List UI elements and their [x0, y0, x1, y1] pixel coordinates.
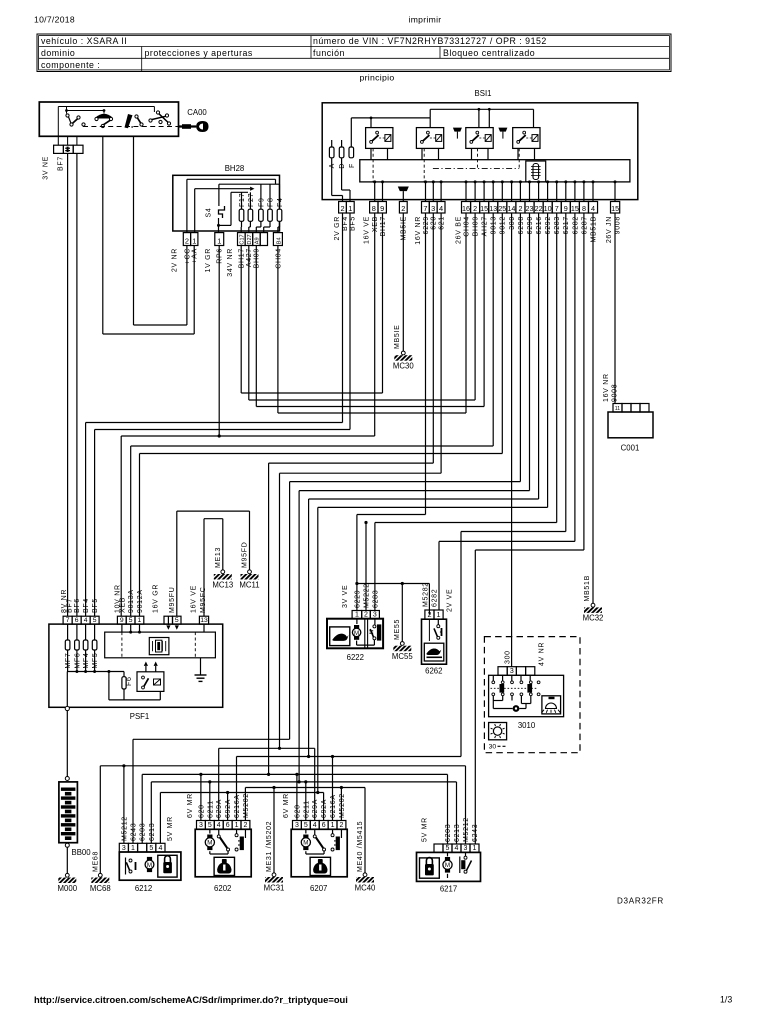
svg-text:9012: 9012: [500, 216, 507, 234]
svg-text:M5222: M5222: [363, 583, 370, 608]
BSI1 internal ground above pin MB5IE: [398, 187, 409, 192]
svg-text:1: 1: [348, 204, 352, 213]
BSI1 box: [322, 103, 638, 200]
svg-text:BSI1: BSI1: [475, 89, 492, 98]
svg-text:7: 7: [423, 204, 427, 213]
svg-text:4V NR: 4V NR: [539, 642, 546, 666]
svg-text:S4: S4: [206, 208, 213, 218]
svg-text:16V GR: 16V GR: [153, 584, 160, 613]
ground MC30: [401, 351, 405, 355]
PSF1 fuse MF7: [67, 624, 69, 640]
svg-text:1: 1: [192, 236, 196, 245]
svg-text:protecciones y aperturas: protecciones y aperturas: [145, 48, 253, 58]
PSF1 connector group4: [199, 616, 208, 624]
wire 6216 weave: [538, 213, 540, 499]
svg-text:M000: M000: [58, 884, 78, 893]
BSI1 relay 1: [366, 128, 393, 149]
svg-text:621: 621: [438, 216, 445, 230]
svg-text:34V NR: 34V NR: [227, 248, 234, 277]
svg-text:BH17: BH17: [239, 248, 246, 268]
CA00 switch contact 1: [66, 114, 69, 117]
wire 300 BSI1 to 3010: [511, 213, 513, 667]
svg-text:C001: C001: [621, 444, 640, 453]
svg-text:3: 3: [199, 822, 203, 829]
wire MB51B BSI1 to MC32: [592, 213, 594, 604]
component 6262: [425, 610, 434, 619]
BSI1 pin stubs: [374, 182, 376, 202]
svg-text:MC30: MC30: [393, 362, 414, 371]
svg-text:6203: 6203: [445, 824, 452, 842]
svg-text:F6: F6: [126, 676, 133, 686]
6222 divider: [364, 619, 366, 649]
wire 9013 BSI1 to PSF1 pin5b: [492, 213, 494, 446]
svg-text:M: M: [207, 840, 212, 847]
wire 6287 BSI1 to 6217 pin1: [583, 213, 585, 550]
risers 6212: [123, 766, 125, 844]
svg-text:BB00: BB00: [72, 848, 92, 857]
PSF1 fuse MF5: [94, 624, 96, 640]
svg-text:9008: 9008: [615, 216, 622, 234]
svg-text:1: 1: [138, 617, 142, 624]
svg-text:6290: 6290: [527, 216, 534, 234]
svg-text:2V NR: 2V NR: [171, 248, 178, 272]
svg-text:1/3: 1/3: [720, 995, 732, 1005]
svg-text:6211: 6211: [207, 800, 214, 818]
svg-text:MC32: MC32: [583, 614, 604, 623]
BSI1 ground flag 2: [498, 128, 507, 132]
svg-text:MF5: MF5: [92, 653, 99, 669]
bus line Y8: [160, 792, 323, 794]
svg-text:2: 2: [185, 236, 189, 245]
svg-text:692A: 692A: [225, 799, 232, 818]
svg-text:F27: F27: [248, 193, 255, 207]
riser MC40: [364, 788, 366, 873]
component 6212: [119, 843, 128, 852]
wire +AA CA00 to BH28: [102, 136, 104, 334]
svg-text:16V NR: 16V NR: [415, 216, 422, 245]
BSI1 fuse F: [349, 147, 354, 158]
svg-text:9013A: 9013A: [128, 589, 135, 613]
svg-text:16V VE: 16V VE: [191, 585, 198, 613]
svg-text:1: 1: [217, 236, 221, 245]
svg-text:6283: 6283: [372, 590, 379, 608]
svg-text:6213: 6213: [149, 823, 156, 841]
svg-text:9013: 9013: [491, 216, 498, 234]
svg-text:F8: F8: [268, 197, 275, 207]
6262 internal link: [428, 619, 430, 641]
3010 bulb: [513, 705, 520, 712]
header table: [37, 34, 671, 72]
svg-text:M: M: [147, 862, 152, 869]
6212 switch: [125, 858, 127, 875]
wire BF4 BSI1 to PSF1 pin4: [342, 213, 344, 423]
PSF1 fuse rail: [67, 650, 69, 672]
svg-text:6243: 6243: [472, 824, 479, 842]
wire M95FC PSF1 pin13 to MC13: [203, 519, 205, 617]
svg-text:MF4: MF4: [83, 653, 90, 669]
svg-text:http://service.citroen.com/sch: http://service.citroen.com/schemeAC/Sdr/…: [34, 994, 348, 1005]
svg-text:4: 4: [217, 822, 221, 829]
3010 contacts: [492, 681, 495, 684]
svg-text:MC31: MC31: [264, 883, 285, 892]
BH28 internal rail H2 with arrow: [195, 188, 250, 190]
svg-text:7: 7: [555, 204, 559, 213]
PSF1 connector group1: [63, 616, 72, 624]
svg-text:4: 4: [591, 204, 595, 213]
bus line Y1: [133, 738, 290, 740]
svg-text:ME68: ME68: [93, 851, 100, 872]
svg-text:7: 7: [66, 617, 70, 624]
svg-text:BH09: BH09: [254, 248, 261, 268]
svg-text:9: 9: [564, 204, 568, 213]
svg-text:MC11: MC11: [239, 580, 259, 589]
svg-text:13: 13: [489, 204, 497, 213]
PSF1 pin5gr arrows: [167, 616, 169, 625]
svg-text:4: 4: [84, 617, 88, 624]
svg-text:300: 300: [505, 650, 512, 664]
wire MC68 riser: [99, 766, 101, 874]
svg-text:3: 3: [431, 204, 435, 213]
component CA00 box: [39, 102, 178, 136]
wire junction 6222 pin1 / MC55 / 6262 pin2: [357, 583, 430, 585]
svg-text:6292: 6292: [545, 216, 552, 234]
PSF1 fuse MF6: [76, 624, 78, 640]
svg-text:BH17: BH17: [380, 216, 387, 236]
svg-text:1: 1: [235, 822, 239, 829]
svg-text:M95FU: M95FU: [169, 587, 176, 613]
wire PSF1 to battery: [66, 711, 68, 777]
svg-text:+AA: +AA: [192, 248, 199, 264]
svg-text:3: 3: [122, 845, 126, 852]
svg-text:6229: 6229: [354, 590, 361, 608]
svg-text:A427: A427: [246, 248, 253, 267]
svg-text:13: 13: [200, 617, 208, 624]
svg-text:2V VE: 2V VE: [446, 589, 453, 612]
svg-text:1: 1: [131, 845, 135, 852]
svg-text:BF7: BF7: [58, 156, 65, 171]
bus line Y2: [219, 747, 315, 749]
svg-text:3: 3: [510, 668, 514, 675]
svg-text:F9: F9: [258, 197, 265, 207]
wire M5222 6222 pin2: [365, 523, 367, 612]
svg-text:BF6: BF6: [74, 598, 81, 613]
svg-text:BF5: BF5: [92, 598, 99, 613]
svg-text:30: 30: [489, 744, 497, 751]
svg-text:15: 15: [611, 204, 619, 213]
svg-text:CH04: CH04: [275, 248, 282, 269]
ground MC31: [272, 873, 276, 877]
svg-text:6211: 6211: [303, 800, 310, 818]
svg-text:10: 10: [544, 204, 552, 213]
CA00 switch contact 3 with wedge: [125, 114, 133, 128]
svg-text:2: 2: [401, 204, 405, 213]
svg-text:D27: D27: [247, 234, 253, 244]
component C001: [613, 404, 622, 413]
svg-text:5: 5: [175, 617, 179, 624]
svg-text:ME13: ME13: [215, 547, 222, 568]
svg-text:25: 25: [498, 204, 506, 213]
svg-text:D: D: [339, 163, 346, 169]
PSF1 fuse MF4: [85, 624, 87, 640]
svg-text:MC40: MC40: [355, 883, 376, 892]
risers 6207: [296, 774, 298, 820]
ground MC32: [591, 603, 595, 607]
svg-text:dominio: dominio: [41, 48, 75, 58]
component 6202: [197, 821, 206, 830]
riser MC31: [273, 788, 275, 873]
BSI1 top rail F to relay R2: [350, 118, 352, 147]
BSI1 dashed links: [372, 148, 374, 182]
svg-text:6: 6: [75, 617, 79, 624]
svg-text:26V JN: 26V JN: [606, 216, 613, 243]
svg-text:620: 620: [431, 216, 438, 230]
svg-text:5: 5: [149, 845, 153, 852]
svg-text:BF4: BF4: [83, 598, 90, 613]
svg-text:26V BE: 26V BE: [455, 216, 462, 244]
svg-text:A: A: [329, 163, 336, 168]
svg-text:8: 8: [372, 204, 376, 213]
CA00 mechanical dashed link: [83, 126, 183, 128]
ground MC40: [363, 873, 367, 877]
risers 6202: [200, 774, 202, 820]
ground MC13: [221, 570, 225, 574]
svg-text:1: 1: [473, 845, 477, 852]
svg-text:5: 5: [208, 822, 212, 829]
BH28 fuse F8: [268, 209, 273, 221]
BH28 box: [173, 175, 280, 231]
svg-text:15: 15: [571, 204, 579, 213]
svg-text:6287: 6287: [581, 216, 588, 234]
wire 621 BSI1 to mid riser: [440, 213, 442, 473]
BH28 internal rail H1 to fuses: [219, 183, 280, 185]
component 6222: [352, 611, 362, 619]
svg-text:imprimir: imprimir: [409, 15, 442, 25]
BSI1 relay 2: [416, 128, 443, 149]
svg-text:MF7: MF7: [65, 653, 72, 669]
BSI1 connector cells comb: [462, 202, 471, 214]
wire 6282 BSI1 to 6262 pin1: [574, 213, 576, 541]
svg-text:M5212: M5212: [463, 817, 470, 842]
svg-text:2: 2: [339, 822, 343, 829]
PSF1 relay arrows: [145, 666, 147, 672]
PSF1 output node: [66, 672, 68, 707]
wire 6217 BSI1 to bottom 620 bus: [565, 213, 567, 532]
svg-text:9: 9: [120, 617, 124, 624]
svg-text:629A: 629A: [312, 799, 319, 818]
svg-text:5: 5: [93, 617, 97, 624]
BSI1 relay-to-innerbox wires: [370, 148, 372, 159]
svg-text:F: F: [349, 163, 356, 168]
component 6207: [293, 821, 302, 830]
3010 lamp wires: [492, 696, 494, 701]
svg-text:6229: 6229: [423, 216, 430, 234]
CA00 switch contact 2 with cap: [96, 114, 113, 119]
3010 cell stubs: [502, 675, 504, 681]
CA00 internal wires: [58, 106, 154, 108]
svg-text:629A: 629A: [216, 799, 223, 818]
bus line Y4 M5212: [100, 765, 465, 767]
bus line Y5: [142, 773, 447, 775]
svg-text:MC55: MC55: [392, 652, 413, 661]
ground MC11: [248, 570, 252, 574]
svg-text:1: 1: [437, 610, 441, 619]
svg-text:5V MR: 5V MR: [167, 816, 174, 841]
svg-text:9012A: 9012A: [137, 589, 144, 613]
BH28 connector cells: [183, 233, 190, 246]
PSF1 relay box: [137, 672, 164, 692]
svg-text:6203: 6203: [140, 823, 147, 841]
svg-text:6: 6: [226, 822, 230, 829]
svg-text:300: 300: [509, 216, 516, 230]
ground M000: [65, 873, 69, 877]
svg-text:2: 2: [518, 204, 522, 213]
svg-text:BH28: BH28: [225, 164, 245, 173]
PSF1 connector group2: [117, 616, 126, 624]
svg-text:23: 23: [526, 204, 534, 213]
svg-text:620: 620: [198, 804, 205, 818]
BH28 fuse F27: [248, 209, 253, 221]
wire 9008 BSI1 to C001: [614, 213, 616, 404]
6217 lock icon: [420, 858, 440, 878]
svg-text:vehículo : XSARA II: vehículo : XSARA II: [41, 36, 127, 46]
svg-text:15: 15: [480, 204, 488, 213]
risers 6217: [447, 774, 449, 844]
svg-text:MB5IE: MB5IE: [394, 324, 401, 349]
svg-text:M: M: [445, 862, 450, 869]
svg-text:F4: F4: [277, 197, 284, 207]
svg-text:6262: 6262: [425, 667, 442, 676]
wire 9012 BSI1 to PSF1 pin1: [501, 213, 503, 454]
6217 motor: [447, 852, 449, 856]
svg-text:2: 2: [364, 612, 368, 619]
component 6217: [434, 844, 443, 852]
BSI1 relay 3: [466, 128, 493, 149]
svg-text:6202: 6202: [214, 884, 231, 893]
BSI1 inner box: [360, 160, 630, 182]
svg-text:10/7/2018: 10/7/2018: [34, 15, 75, 25]
component 3010 dashed box: [484, 637, 580, 753]
svg-text:4: 4: [158, 845, 162, 852]
ground MC68: [98, 873, 102, 877]
svg-text:XEB: XEB: [119, 597, 126, 613]
svg-text:4: 4: [439, 204, 443, 213]
CA00 connector (3V NE / BF7): [57, 136, 59, 145]
svg-text:9008: 9008: [611, 384, 618, 402]
wire XEB BSI1 to PSF1 pin9 junction BH28 RP6: [374, 213, 376, 436]
wire BF6 CA00 to PSF1 pin6: [76, 153, 78, 616]
svg-text:16: 16: [462, 204, 470, 213]
BH28 fuse F17: [239, 209, 244, 221]
wire MB5IE BSI1 to MC30: [402, 213, 404, 351]
svg-text:1: 1: [331, 822, 335, 829]
svg-text:M5202: M5202: [243, 793, 250, 818]
BH28 internal wire +CC rail: [186, 179, 188, 232]
BH28 fuse F4: [277, 209, 282, 221]
ground MC55: [400, 642, 404, 646]
svg-text:6217: 6217: [563, 216, 570, 234]
BH28 fuse F9: [259, 209, 264, 221]
svg-text:5: 5: [446, 845, 450, 852]
BSI1 connector cells left: [339, 202, 347, 214]
svg-text:M5202: M5202: [339, 793, 346, 818]
svg-text:+CC: +CC: [184, 248, 191, 264]
svg-text:6216A: 6216A: [330, 794, 337, 818]
wire 6298 weave: [519, 213, 521, 482]
BSI1 internal fuse icon: [526, 161, 546, 182]
wire BF7 CA00 to PSF1 pin7: [67, 153, 69, 616]
svg-text:6216A: 6216A: [234, 794, 241, 818]
svg-text:M95FD: M95FD: [242, 542, 249, 568]
svg-text:AH27: AH27: [482, 216, 489, 236]
wire 6292 weave: [547, 213, 549, 507]
PSF1 pin13 wire and ground: [203, 624, 205, 632]
svg-text:6282: 6282: [572, 216, 579, 234]
svg-text:6V MR: 6V MR: [187, 793, 194, 818]
6222 boot icon: [330, 627, 350, 646]
bus line Y6: [151, 781, 456, 783]
svg-text:MC68: MC68: [90, 884, 111, 893]
svg-text:3: 3: [295, 822, 299, 829]
wire 6229 BSI1 to 6222 pin1: [425, 213, 427, 515]
wire 6290 weave: [529, 213, 531, 491]
svg-text:11: 11: [615, 406, 620, 412]
PSF1 internal connector icon: [149, 638, 169, 655]
svg-text:ME31 /M5202: ME31 /M5202: [266, 821, 273, 872]
svg-text:Bloqueo centralizado: Bloqueo centralizado: [443, 48, 535, 58]
svg-text:A9: A9: [255, 237, 261, 244]
battery BB00: [65, 777, 69, 781]
svg-text:M5282: M5282: [422, 582, 429, 607]
svg-text:2: 2: [340, 204, 344, 213]
svg-text:MB51B: MB51B: [584, 575, 591, 601]
svg-text:6207: 6207: [310, 884, 327, 893]
wire CH04 BSI1 to BH28 B4: [465, 213, 467, 413]
6222 motor: [356, 619, 358, 624]
svg-text:8: 8: [582, 204, 586, 213]
svg-text:2V GR: 2V GR: [334, 216, 341, 241]
svg-text:4: 4: [455, 845, 459, 852]
svg-text:C17: C17: [240, 234, 246, 244]
svg-text:2: 2: [243, 822, 247, 829]
svg-text:CA00: CA00: [187, 108, 207, 117]
svg-text:M: M: [303, 840, 308, 847]
BSI1 relay 4: [513, 128, 540, 149]
svg-text:MB5IE: MB5IE: [401, 216, 408, 241]
6262 switch: [437, 619, 439, 625]
svg-text:BH09: BH09: [473, 216, 480, 236]
wire BH17 BSI1 to BH28 C17: [382, 213, 384, 393]
PSF1 inner box1: [105, 632, 216, 658]
svg-text:6298: 6298: [518, 216, 525, 234]
3010 connector cells: [498, 667, 507, 676]
6262 car icon: [424, 643, 444, 661]
svg-text:PSF1: PSF1: [130, 712, 150, 721]
CA00 switch contact 4: [149, 119, 152, 122]
svg-text:22: 22: [535, 204, 543, 213]
wire +CC CA00 to BH28: [133, 136, 135, 325]
wire battery to M000: [66, 847, 68, 873]
BSI1 fuse A: [329, 147, 334, 158]
svg-text:3V VE: 3V VE: [342, 585, 349, 608]
svg-text:6V MR: 6V MR: [283, 793, 290, 818]
svg-text:3010: 3010: [518, 721, 536, 730]
svg-text:6: 6: [322, 822, 326, 829]
svg-text:3V NE: 3V NE: [43, 156, 50, 180]
svg-text:número de VIN : VF7N2RHYB73312: número de VIN : VF7N2RHYB73312727 / OPR …: [313, 36, 547, 46]
svg-text:M95FC: M95FC: [200, 587, 207, 613]
svg-text:principio: principio: [359, 73, 394, 83]
3010 light symbol box: [489, 723, 507, 740]
